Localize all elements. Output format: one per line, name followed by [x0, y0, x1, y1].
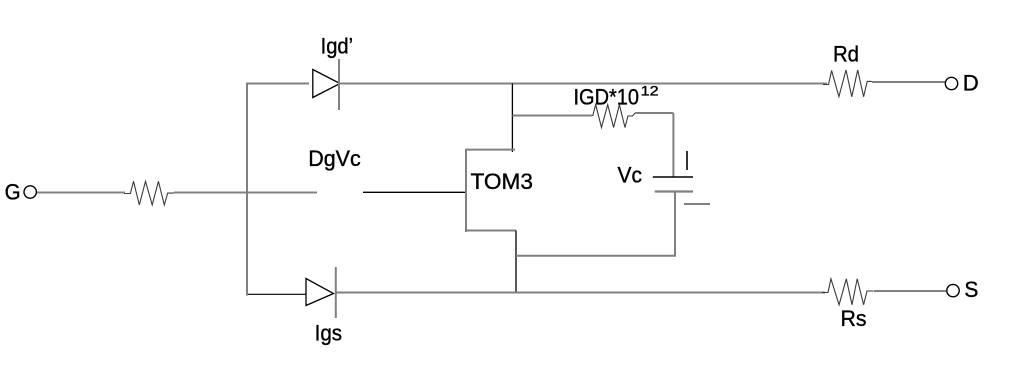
diode Igd' triangle: [313, 70, 340, 98]
wire top left to diode: [246, 83, 309, 85]
transistor TOM3 gate bar: [465, 150, 467, 232]
svg-text:Rd: Rd: [833, 42, 859, 67]
wire battery top lead: [672, 113, 674, 177]
svg-text:Rs: Rs: [841, 306, 867, 331]
wire source vertical: [515, 231, 517, 294]
wire top main: [340, 83, 827, 85]
svg-text:12: 12: [641, 83, 659, 98]
diode Igd' cathode bar: [338, 59, 340, 110]
svg-text:G: G: [5, 180, 21, 205]
wire junction vertical: [246, 83, 248, 296]
wire resistor to junction: [174, 192, 317, 194]
wire bottom main: [336, 292, 825, 294]
wire Rd to terminal D: [872, 81, 945, 83]
transistor TOM3 source arm: [465, 230, 516, 232]
wire battery bottom lead: [674, 192, 676, 257]
svg-text:Vc: Vc: [618, 163, 643, 188]
wire drain vertical: [511, 84, 513, 153]
wire Rs to terminal S: [874, 290, 946, 292]
battery Vc minus tick: [684, 203, 710, 205]
terminal S: [947, 284, 959, 296]
wire battery return: [516, 255, 675, 257]
transistor TOM3 drain arm: [465, 149, 515, 151]
wire IGD resistor to battery top: [635, 112, 673, 114]
svg-text:Igs: Igs: [315, 321, 343, 346]
svg-text:D: D: [963, 71, 979, 96]
terminal G: [24, 186, 36, 198]
svg-text:DgVc: DgVc: [308, 146, 361, 171]
resistor Rd: [823, 70, 872, 97]
diode Igs cathode bar: [335, 267, 337, 318]
resistor (gate series, unlabeled): [124, 181, 174, 205]
diode Igs triangle: [306, 279, 334, 306]
wire bottom left to diode (black): [248, 293, 306, 295]
svg-text:IGD*10: IGD*10: [574, 85, 640, 110]
terminal D: [945, 77, 957, 89]
battery Vc bottom plate: [655, 190, 693, 192]
resistor Rs: [822, 279, 874, 305]
resistor IGD*10^12: [592, 105, 635, 128]
wire gate (black): [363, 191, 466, 193]
wire G lead: [37, 192, 125, 194]
wire to IGD resistor: [512, 115, 592, 117]
battery Vc top plate: [653, 176, 693, 178]
svg-text:Igd’: Igd’: [321, 34, 354, 59]
svg-text:TOM3: TOM3: [471, 169, 534, 194]
svg-text:S: S: [964, 277, 978, 302]
battery Vc plus tick: [686, 151, 688, 170]
